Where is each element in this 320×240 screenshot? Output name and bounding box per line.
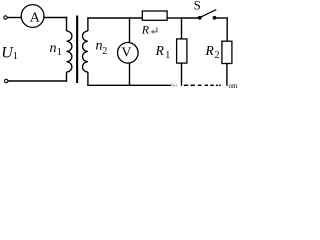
right edge top vertical [226, 17, 228, 41]
svg-text:n: n [50, 41, 57, 56]
svg-text:R: R [205, 43, 215, 58]
bottom wire to terminal [8, 80, 67, 82]
voltmeter bottom lead [129, 63, 131, 86]
secondary top wire [87, 17, 142, 19]
svg-text:om: om [229, 82, 239, 90]
resistor R box [142, 11, 167, 20]
primary top vertical wire [66, 17, 68, 31]
terminal bottom-left [5, 79, 8, 82]
watermark remnant gray left [172, 84, 176, 87]
resistor R2 box [222, 41, 232, 63]
wire ammeter to primary top corner [44, 17, 67, 19]
svg-text:R: R [141, 22, 150, 36]
svg-text:R: R [155, 43, 165, 58]
svg-text:1: 1 [165, 50, 170, 61]
wire R1 junction to switch [182, 17, 199, 19]
svg-text:A: A [30, 10, 41, 25]
svg-text:1: 1 [13, 51, 18, 62]
svg-text:1: 1 [57, 47, 62, 58]
wire switch to top right corner [215, 17, 228, 19]
bottom wire dashed part [184, 84, 221, 86]
voltmeter V1 circle [118, 43, 139, 64]
switch blade [200, 10, 216, 18]
switch S left contact [198, 16, 202, 20]
wire R box to R1 junction [167, 17, 182, 19]
resistor R2 bottom lead [226, 64, 228, 86]
resistor R1 box [177, 39, 187, 63]
resistor R1 branch lead [181, 17, 183, 39]
voltmeter top lead [129, 18, 131, 43]
svg-text:2: 2 [215, 50, 220, 61]
primary winding n1 bumps [67, 31, 72, 72]
svg-text:S: S [194, 0, 201, 12]
svg-text:V: V [121, 45, 131, 60]
secondary top vertical wire [87, 17, 89, 31]
terminal top-left [4, 16, 7, 19]
transformer core [76, 16, 78, 84]
svg-text:2: 2 [102, 46, 107, 57]
resistor R1 bottom lead [181, 63, 183, 86]
ammeter A1 circle [21, 5, 44, 28]
secondary winding n2 bumps [82, 31, 87, 72]
switch S right contact [213, 16, 217, 20]
secondary bottom vertical wire [87, 72, 89, 86]
bottom wire solid part [87, 84, 171, 86]
gray enter mark [153, 27, 157, 32]
wire terminal to ammeter [7, 17, 21, 19]
primary bottom vertical wire [66, 72, 68, 82]
